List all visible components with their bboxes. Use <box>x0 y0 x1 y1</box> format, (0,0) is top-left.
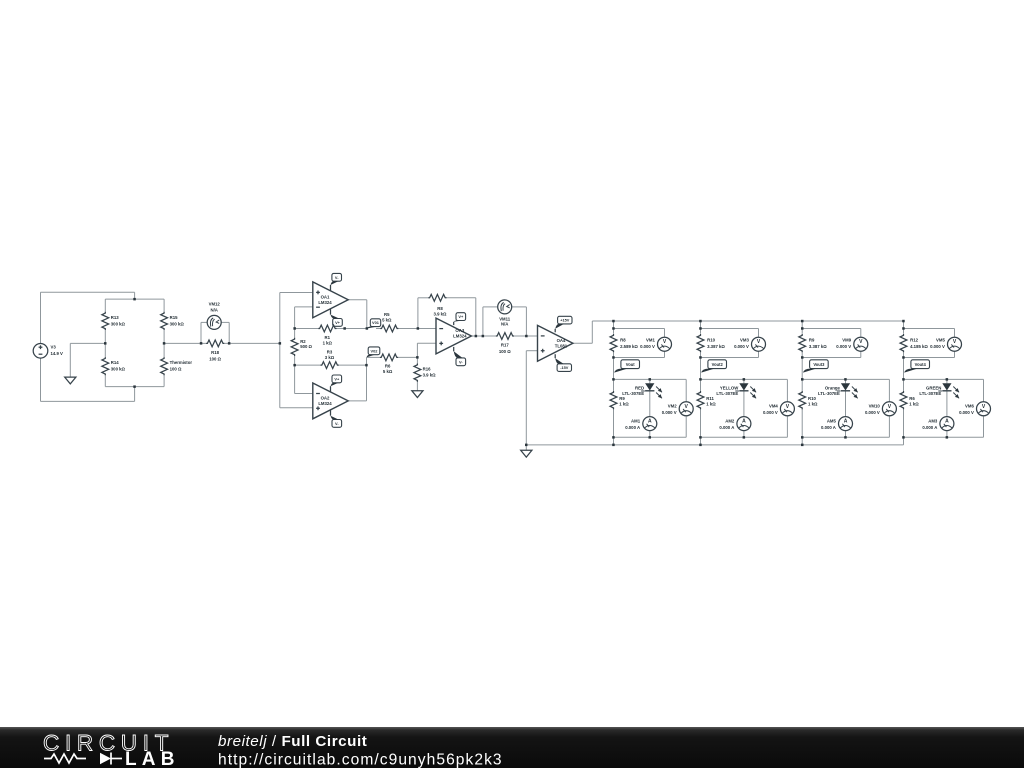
svg-text:-15V: -15V <box>560 365 569 370</box>
svg-text:3.387 kΩ: 3.387 kΩ <box>707 344 725 349</box>
svg-text:0.000 V: 0.000 V <box>662 410 677 415</box>
svg-text:VM1: VM1 <box>646 337 655 342</box>
svg-text:A: A <box>945 419 949 425</box>
svg-text:LM324: LM324 <box>318 300 332 305</box>
svg-text:300 kΩ: 300 kΩ <box>170 321 185 326</box>
svg-text:R8: R8 <box>437 306 443 311</box>
svg-text:3.387 kΩ: 3.387 kΩ <box>809 344 827 349</box>
svg-text:AM1: AM1 <box>631 418 641 423</box>
svg-text:1 kΩ: 1 kΩ <box>706 402 716 407</box>
svg-text:LTL-307EE: LTL-307EE <box>622 391 644 396</box>
svg-text:0.000 A: 0.000 A <box>719 425 734 430</box>
svg-text:VM3: VM3 <box>740 337 749 342</box>
svg-text:0.000 A: 0.000 A <box>625 425 640 430</box>
svg-text:OA4: OA4 <box>557 338 566 343</box>
svg-text:3 kΩ: 3 kΩ <box>325 355 335 360</box>
svg-text:RED: RED <box>635 385 644 390</box>
svg-text:N/A: N/A <box>210 307 217 312</box>
svg-text:LTL-307EE: LTL-307EE <box>716 391 738 396</box>
svg-text:100 Ω: 100 Ω <box>170 367 182 372</box>
svg-text:0.000 V: 0.000 V <box>930 344 945 349</box>
svg-text:LM324: LM324 <box>318 401 332 406</box>
svg-text:A: A <box>844 419 848 425</box>
svg-text:0.000 V: 0.000 V <box>836 344 851 349</box>
svg-text:LTL-307EE: LTL-307EE <box>818 391 840 396</box>
svg-text:R13: R13 <box>111 315 119 320</box>
svg-text:500 Ω: 500 Ω <box>300 344 312 349</box>
svg-text:LTL-307EE: LTL-307EE <box>919 391 941 396</box>
svg-text:R15: R15 <box>170 315 178 320</box>
svg-text:0.000 V: 0.000 V <box>763 410 778 415</box>
svg-text:R9: R9 <box>619 396 625 401</box>
svg-text:Vout: Vout <box>626 362 635 367</box>
svg-text:R5: R5 <box>384 312 390 317</box>
svg-text:V3: V3 <box>51 345 57 350</box>
svg-text:VM12: VM12 <box>209 301 221 306</box>
svg-text:OA1: OA1 <box>321 295 330 300</box>
svg-text:4.185 kΩ: 4.185 kΩ <box>910 344 928 349</box>
svg-text:GREEN: GREEN <box>926 385 941 390</box>
svg-text:3.9 kΩ: 3.9 kΩ <box>423 372 437 377</box>
svg-text:14.9 V: 14.9 V <box>51 351 64 356</box>
svg-text:Orange: Orange <box>825 385 841 390</box>
svg-text:VM2: VM2 <box>668 404 677 409</box>
svg-text:AM5: AM5 <box>827 418 837 423</box>
svg-text:R11: R11 <box>706 396 714 401</box>
svg-text:A: A <box>648 419 652 425</box>
svg-text:R6: R6 <box>909 396 915 401</box>
svg-text:0.000 V: 0.000 V <box>959 410 974 415</box>
svg-text:R9: R9 <box>809 337 815 342</box>
svg-text:100 Ω: 100 Ω <box>209 356 221 361</box>
svg-text:breitelj / Full Circuit: breitelj / Full Circuit <box>218 733 367 750</box>
svg-text:R12: R12 <box>910 337 918 342</box>
svg-text:VM9: VM9 <box>842 337 851 342</box>
svg-text:LAB: LAB <box>125 749 180 768</box>
svg-text:1 kΩ: 1 kΩ <box>909 402 919 407</box>
svg-text:V+: V+ <box>335 320 341 325</box>
svg-text:R1: R1 <box>325 335 331 340</box>
svg-text:2.589 kΩ: 2.589 kΩ <box>620 344 638 349</box>
svg-text:http://circuitlab.com/c9unyh56: http://circuitlab.com/c9unyh56pk2k3 <box>218 751 503 768</box>
svg-text:VM6: VM6 <box>965 404 974 409</box>
svg-text:R16: R16 <box>423 367 431 372</box>
svg-text:V+: V+ <box>334 376 340 381</box>
svg-text:VM5: VM5 <box>936 337 945 342</box>
svg-text:Vout4: Vout4 <box>915 362 927 367</box>
svg-text:5 kΩ: 5 kΩ <box>383 369 393 374</box>
svg-text:OA2: OA2 <box>321 396 330 401</box>
svg-text:5 kΩ: 5 kΩ <box>382 318 392 323</box>
svg-text:YELLOW: YELLOW <box>720 385 739 390</box>
svg-text:A: A <box>742 419 746 425</box>
svg-text:3.9 kΩ: 3.9 kΩ <box>433 312 447 317</box>
svg-text:VM10: VM10 <box>869 404 881 409</box>
svg-text:R18: R18 <box>211 350 219 355</box>
svg-text:R17: R17 <box>501 343 509 348</box>
svg-text:R6: R6 <box>385 364 391 369</box>
svg-text:V02: V02 <box>371 348 379 353</box>
svg-text:0.000 A: 0.000 A <box>922 425 937 430</box>
svg-text:+15V: +15V <box>560 318 570 323</box>
svg-text:R10: R10 <box>808 396 816 401</box>
svg-text:AM3: AM3 <box>928 418 938 423</box>
svg-text:R8: R8 <box>620 337 626 342</box>
svg-text:100 Ω: 100 Ω <box>499 349 511 354</box>
svg-text:R14: R14 <box>111 360 119 365</box>
svg-text:300 kΩ: 300 kΩ <box>111 367 126 372</box>
svg-text:R3: R3 <box>327 349 333 354</box>
svg-text:TL081: TL081 <box>555 343 568 348</box>
svg-text:Vout3: Vout3 <box>813 362 825 367</box>
svg-text:Vout2: Vout2 <box>712 362 724 367</box>
svg-text:R10: R10 <box>707 337 715 342</box>
svg-text:V+: V+ <box>458 314 464 319</box>
svg-text:Thermistor: Thermistor <box>170 360 193 365</box>
svg-text:1 kΩ: 1 kΩ <box>808 402 818 407</box>
svg-text:V01: V01 <box>372 320 380 325</box>
svg-text:0.000 V: 0.000 V <box>865 410 880 415</box>
svg-text:OA3: OA3 <box>455 328 464 333</box>
svg-text:300 kΩ: 300 kΩ <box>111 321 126 326</box>
svg-text:0.000 V: 0.000 V <box>734 344 749 349</box>
svg-text:0.000 A: 0.000 A <box>821 425 836 430</box>
svg-text:AM2: AM2 <box>725 418 735 423</box>
svg-text:1 kΩ: 1 kΩ <box>323 341 333 346</box>
svg-text:1 kΩ: 1 kΩ <box>619 402 629 407</box>
svg-text:N/A: N/A <box>501 322 508 327</box>
svg-text:0.000 V: 0.000 V <box>640 344 655 349</box>
svg-text:VM4: VM4 <box>769 404 778 409</box>
svg-text:LM324: LM324 <box>453 334 467 339</box>
